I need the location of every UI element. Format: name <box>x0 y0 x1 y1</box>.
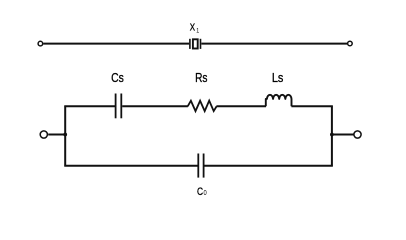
label C0 <box>197 186 203 198</box>
capacitor C0 <box>198 154 203 178</box>
wire <box>291 105 332 107</box>
wire <box>64 105 115 107</box>
terminal T4 (bottom-right open circle) <box>354 131 361 138</box>
label Rs <box>195 71 208 85</box>
junction node left <box>63 133 67 137</box>
capacitor Cs <box>116 94 122 119</box>
wire (left rail) <box>64 106 66 167</box>
svg-text:1: 1 <box>196 28 200 35</box>
svg-text:0: 0 <box>203 190 207 198</box>
svg-text:Cs: Cs <box>111 71 124 85</box>
wire <box>216 105 266 107</box>
terminal T1 (top-left open circle) <box>38 41 43 46</box>
terminal T2 (top-right open circle) <box>348 41 353 46</box>
svg-text:C: C <box>197 186 203 198</box>
junction node right <box>330 133 334 137</box>
svg-text:X: X <box>190 22 196 33</box>
wire <box>43 43 189 45</box>
wire <box>64 165 197 167</box>
wire <box>201 43 347 45</box>
resistor Rs <box>188 101 217 111</box>
wire <box>122 105 188 107</box>
crystal X1 <box>190 39 201 49</box>
svg-text:Ls: Ls <box>272 70 284 85</box>
svg-text:Rs: Rs <box>195 71 208 85</box>
label Ls <box>272 70 284 85</box>
label Cs <box>111 71 124 85</box>
wire <box>332 134 354 136</box>
terminal T3 (bottom-left open circle) <box>40 131 47 138</box>
wire <box>48 134 65 136</box>
label X1 <box>190 22 196 33</box>
wire <box>204 165 332 167</box>
wire (right rail) <box>331 106 333 167</box>
inductor Ls <box>266 95 292 107</box>
